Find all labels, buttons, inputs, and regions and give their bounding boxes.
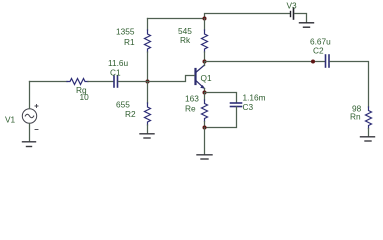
svg-text:Re: Re [185, 104, 196, 114]
wire emitter stem [204, 89, 206, 93]
ground at Rn [361, 137, 375, 141]
node collector [203, 60, 207, 64]
wire R1 node to R2 [147, 82, 149, 104]
transistor Q1 [196, 65, 206, 89]
node input junction [146, 80, 150, 84]
wire bottom node to ground [204, 128, 206, 155]
svg-text:R1: R1 [124, 37, 135, 47]
capacitor C3 [231, 103, 242, 107]
wire top rail R1 to Rk junction [148, 18, 205, 20]
plus mark [35, 105, 38, 108]
svg-text:C3: C3 [243, 102, 254, 112]
wire V3 rail step [205, 14, 290, 19]
svg-text:C2: C2 [313, 46, 324, 56]
node emitter [203, 91, 207, 95]
svg-text:Q1: Q1 [201, 73, 212, 83]
node top junction [203, 17, 207, 21]
wire emitter rail to C3 [205, 93, 237, 103]
capacitor C2 [326, 55, 330, 67]
wire collector rail to C2 [205, 61, 325, 63]
ground at R2 [140, 134, 154, 138]
wire Rk to collector node [204, 52, 206, 62]
resistor Rn [366, 107, 372, 129]
svg-text:163: 163 [185, 94, 199, 104]
resistor Rg [67, 79, 88, 85]
resistor Re [202, 100, 208, 122]
wire emitter to Re [204, 93, 206, 101]
wire Rn to ground [368, 129, 370, 137]
svg-text:1355: 1355 [116, 27, 135, 37]
ground at V1 [23, 142, 36, 147]
battery V3 [291, 8, 294, 19]
ground at V3 [300, 23, 314, 27]
minus mark [35, 129, 38, 131]
svg-text:C1: C1 [110, 68, 121, 78]
svg-text:R2: R2 [125, 109, 136, 119]
wire V3 to ground [295, 14, 307, 23]
wire V1 to ground [29, 124, 31, 142]
ground main [197, 155, 212, 159]
wire C1 to node [119, 81, 148, 83]
wire R1 column top [147, 19, 149, 31]
wire V1 up to rail [29, 82, 31, 109]
wire C3 bottom [205, 107, 237, 128]
wire base jog [148, 76, 195, 82]
resistor Rk [202, 30, 208, 52]
svg-text:Rk: Rk [180, 35, 191, 45]
svg-text:1.16m: 1.16m [243, 93, 266, 103]
wire collector stem [204, 62, 206, 66]
capacitor C1 [114, 76, 118, 87]
svg-text:Rn: Rn [350, 112, 361, 122]
svg-text:V1: V1 [5, 115, 16, 125]
wire R2 to ground [147, 125, 149, 134]
node bottom [203, 126, 207, 130]
svg-text:V3: V3 [287, 1, 298, 11]
svg-text:10: 10 [80, 92, 90, 102]
wire Re to bottom node [204, 122, 206, 128]
source V1 [22, 109, 36, 123]
wire Rk top [204, 19, 206, 31]
wire C2 to Rn [330, 62, 369, 108]
wire input rail left [30, 81, 68, 83]
wire R1 to input node [147, 52, 149, 82]
svg-text:11.6u: 11.6u [108, 58, 129, 68]
resistor R1 [145, 30, 151, 52]
resistor R2 [145, 103, 151, 125]
node output [311, 60, 315, 64]
svg-text:655: 655 [116, 100, 130, 110]
wire Rg to C1 [88, 81, 113, 83]
